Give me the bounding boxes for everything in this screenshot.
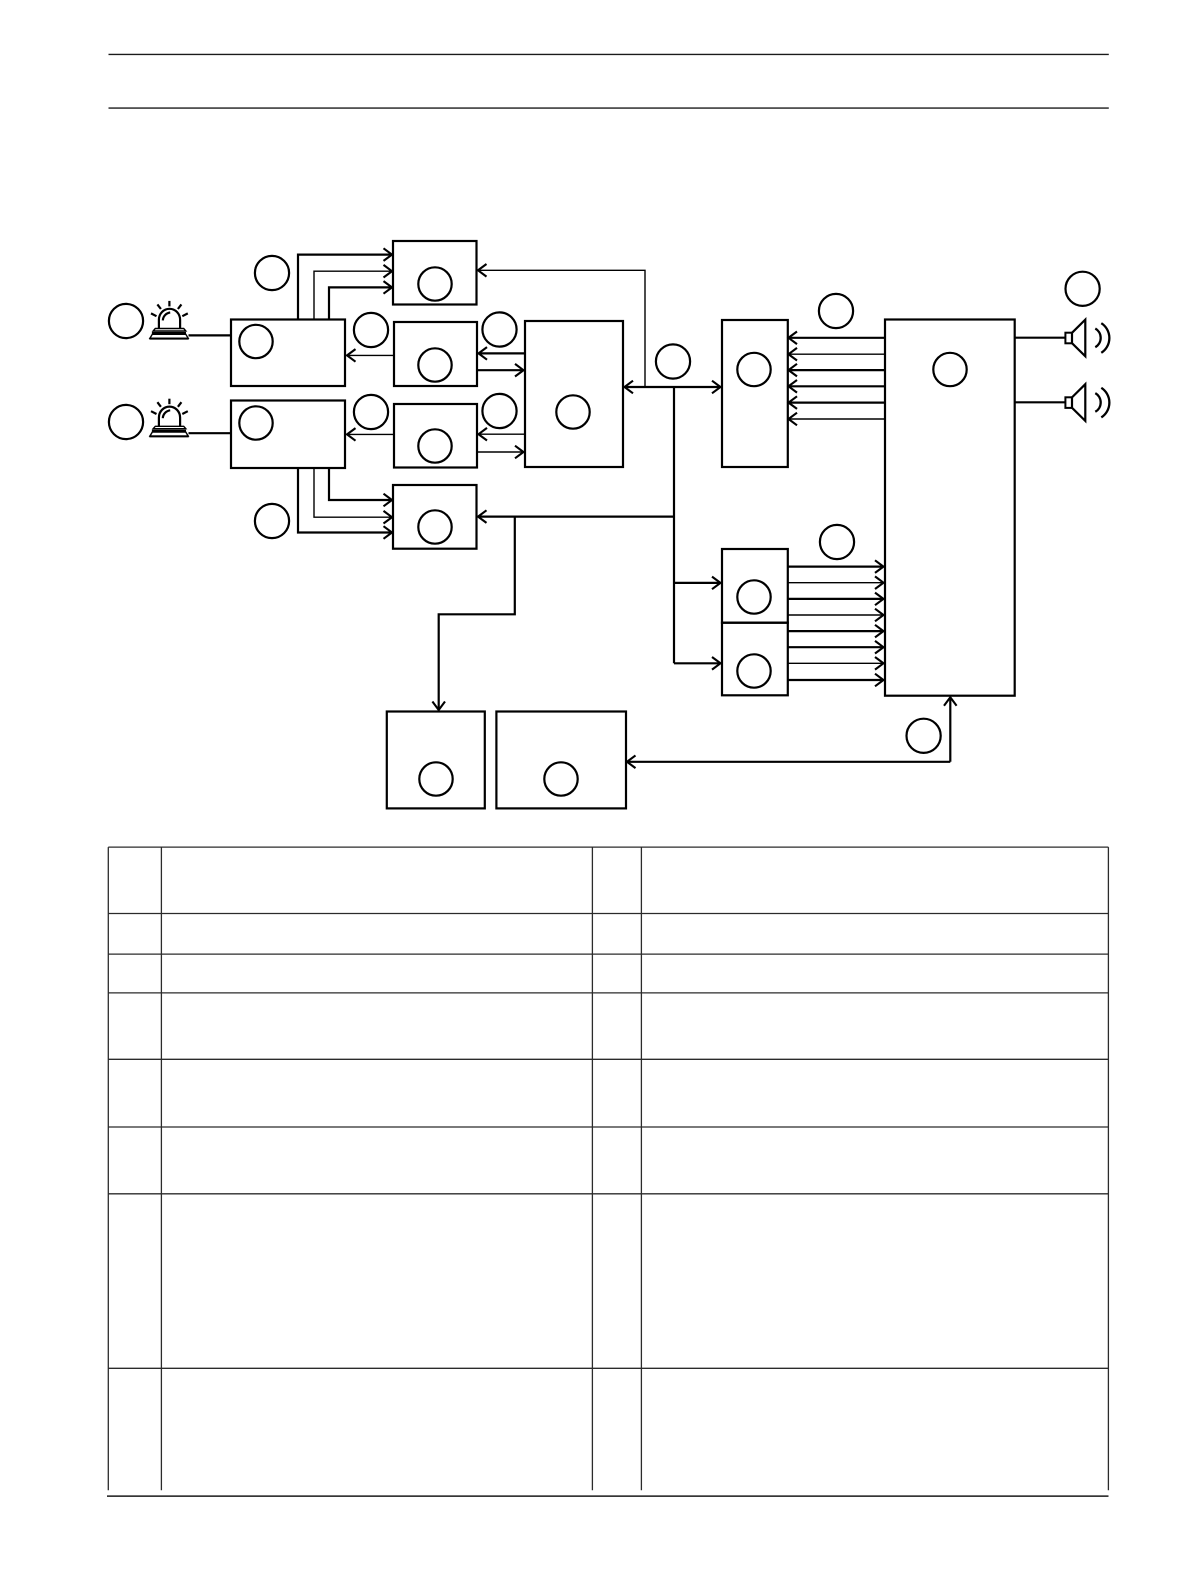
node circle row3 left (354, 395, 388, 429)
table column line 4 (640, 847, 642, 1490)
box B4 (bottom small block) (393, 485, 477, 549)
node circle mid (above C1-C2 wire) (656, 344, 690, 378)
wire E to R bus line 8 (787, 679, 883, 681)
arrowhead into L1 (347, 349, 356, 362)
table row line 3 (108, 953, 1108, 955)
circle inside box L1 (239, 325, 272, 358)
wire C1 to B3 (thin) (479, 433, 525, 435)
circle inside box B1 (418, 267, 451, 300)
box L1 (upper input block) (231, 320, 345, 387)
wire E to R bus line 6 (787, 646, 883, 648)
wire E to R bus line 5 (787, 630, 883, 632)
wire siren1 to box L1 (189, 334, 232, 336)
arrowhead into C1 from B2 (515, 364, 524, 377)
wire B3 to C1 (thin) (477, 451, 523, 453)
speaker icon 1 (1065, 320, 1109, 357)
table row line 5 (108, 1058, 1108, 1060)
table row line 4 (108, 992, 1108, 994)
wire C1-C2 bidirectional (625, 386, 721, 388)
circle inside box C2 (737, 353, 770, 386)
arrowhead into B4 line 3 (384, 494, 393, 507)
wire E to R bus line 4 (787, 614, 883, 616)
wire trunk to E1 (674, 582, 720, 584)
wire trunk to E2 (674, 662, 720, 664)
wire L1-top feeder 1 (298, 255, 391, 320)
arrowhead into R line 4 (875, 609, 884, 622)
arrowhead into R line 7 (875, 657, 884, 670)
header rule 2 (109, 107, 1109, 109)
wire R to C2 bus line 6 (789, 418, 885, 420)
box E1 (upper driver block) (722, 549, 788, 623)
arrowhead into C2 line 4 (789, 380, 798, 393)
arrowhead into C2 line 1 (789, 332, 798, 345)
wire L1-top feeder 3 (329, 287, 391, 319)
arrowhead into D2 right edge (627, 756, 636, 769)
arrowhead into R line 6 (875, 641, 884, 654)
arrowhead into R line 5 (875, 625, 884, 638)
wire B2 to L1 (thin) (348, 354, 395, 356)
arrowhead feedback into B1 right edge (478, 264, 487, 277)
node circle 2 (left of siren 2) (109, 405, 143, 439)
speaker icon 2 (1065, 384, 1109, 421)
arrowhead into B3 right edge (479, 428, 488, 441)
circle inside box C1 (556, 395, 589, 428)
wire L2-bottom feeder 2 (thin) (314, 468, 391, 517)
wire C1 to B2 (479, 352, 525, 354)
wire L2-bottom feeder 3 (329, 468, 391, 500)
siren icon 1 (alarm beacon input A) (149, 301, 188, 339)
arrowhead into B1 line 1 (384, 248, 393, 261)
wire return from D2 to R bottom (949, 698, 951, 762)
wire R to speaker 2 (1015, 401, 1066, 403)
circle inside box B4 (418, 510, 451, 543)
table row line 1 (108, 846, 1108, 848)
arrowhead into B4 right edge (478, 510, 487, 523)
arrowhead into R line 2 (875, 576, 884, 589)
circle inside box D1 (419, 762, 452, 795)
box B3 (row-3 small block) (394, 404, 477, 468)
arrowhead into C1 right edge (625, 381, 634, 394)
circle inside box D2 (544, 762, 577, 795)
wire E to R bus line 2 (787, 582, 883, 584)
wire trunk to B4 (479, 515, 675, 517)
wire trunk drop to box D1 (439, 517, 515, 710)
node circle row2 left (354, 313, 388, 347)
table column line 3 (591, 847, 593, 1490)
wire R to C2 bus line 3 (789, 369, 885, 371)
box E2 (lower driver block) (722, 623, 788, 696)
table row line 2 (108, 913, 1108, 915)
wire E to R bus line 1 (787, 565, 883, 567)
box C1 (center controller) (525, 321, 623, 467)
node circle row3 right (482, 394, 516, 428)
box D1 (bottom left block) (387, 712, 485, 809)
arrowhead into C2 line 2 (789, 348, 798, 361)
wire trunk vertical (673, 387, 675, 663)
circle inside box B3 (418, 429, 451, 462)
wire R to C2 bus line 2 (789, 353, 885, 355)
box C2 (narrow interface block) (722, 320, 788, 467)
box L2 (lower input block) (231, 401, 345, 469)
node circle above L1 feeders (255, 256, 289, 290)
node circle below L2 feeders (255, 504, 289, 538)
arrowhead into C2 line 3 (789, 364, 798, 377)
table column line 2 (160, 847, 162, 1490)
wire B2 to C1 (477, 369, 523, 371)
table column line 5 (1107, 847, 1109, 1490)
arrowhead into B4 line 2 (384, 511, 393, 524)
arrowhead into E2 left edge (712, 657, 721, 670)
arrowhead into L2 (347, 428, 356, 441)
footer rule (table bottom) (107, 1495, 1109, 1497)
node circle near return wire (907, 719, 941, 753)
arrowhead into R line 8 (875, 674, 884, 687)
box R (output amplifier block) (885, 320, 1015, 696)
node circle above C2-R bus (819, 294, 853, 328)
node circle top right (1066, 272, 1100, 306)
table row line 6 (108, 1126, 1108, 1128)
wire R to C2 bus line 1 (789, 337, 885, 339)
arrowhead into R line 1 (875, 560, 884, 573)
wire R to C2 bus line 4 (789, 385, 885, 387)
circle inside box R (933, 353, 966, 386)
arrowhead into E1 left edge (712, 577, 721, 590)
wire L1-top feeder 2 (thin) (314, 271, 391, 319)
wire E to R bus line 7 (787, 662, 883, 664)
wire L2-bottom feeder 1 (298, 468, 391, 533)
wire B3 to L2 (thin) (348, 433, 395, 435)
wire siren2 to box L2 (189, 432, 232, 434)
wire E to R bus line 3 (787, 598, 883, 600)
arrowhead into C2 line 6 (789, 413, 798, 426)
wire feedback vertical (thin) (479, 270, 646, 387)
wire R to C2 bus line 5 (789, 402, 885, 404)
table row line 8 (108, 1367, 1108, 1369)
box B1 (top small block) (393, 241, 477, 305)
arrowhead into B4 line 1 (384, 526, 393, 539)
node circle 1 (left of siren 1) (109, 304, 143, 338)
arrowhead into C2 line 5 (789, 396, 798, 409)
node circle row2 right (482, 312, 516, 346)
siren icon 2 (alarm beacon input B) (149, 399, 188, 437)
arrowhead into B1 line 2 (384, 265, 393, 278)
table row line 7 (108, 1193, 1108, 1195)
arrowhead into B1 line 3 (384, 281, 393, 294)
header rule 1 (109, 53, 1109, 55)
arrowhead into B2 right edge (479, 347, 488, 360)
arrowhead into C1 from B3 (515, 446, 524, 459)
circle inside box L2 (239, 406, 272, 439)
arrowhead into C2 left edge (712, 381, 721, 394)
arrowhead into R bottom edge (944, 697, 957, 706)
wire return horizontal (628, 761, 951, 763)
node circle above E-R bus (820, 525, 854, 559)
box B2 (row-2 small block) (394, 322, 477, 386)
arrowhead into R line 3 (875, 593, 884, 606)
wire R to speaker 1 (1015, 337, 1066, 339)
circle inside box E1 (737, 580, 770, 613)
circle inside box B2 (418, 348, 451, 381)
circle inside box E2 (737, 654, 770, 687)
arrowhead into D1 top edge (432, 702, 445, 711)
box D2 (bottom right block) (496, 712, 626, 809)
table column line 1 (107, 847, 109, 1490)
